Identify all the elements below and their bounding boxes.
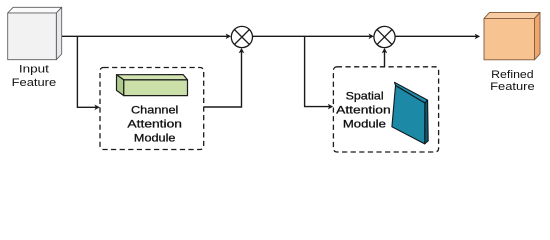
channel attention module dashed box [100, 68, 204, 150]
wire branch down to Channel Attention Module [77, 36, 96, 107]
input feature cube [8, 7, 62, 59]
svg-text:Attention: Attention [336, 105, 391, 117]
arrow into second multiply [369, 34, 374, 40]
arrow up into second multiply [382, 48, 388, 53]
wire spatial module output up into second multiply [384, 52, 386, 67]
wire main from input cube to first multiply [62, 35, 228, 37]
channel attention map green slab [117, 75, 188, 96]
svg-text:Feature: Feature [12, 77, 57, 89]
wire between multiplies [253, 35, 371, 37]
wire from second multiply to refined cube [395, 35, 477, 37]
spatial attention module dashed box [333, 67, 438, 152]
multiply circle 1 [231, 26, 252, 47]
label Spatial Attention Module [336, 91, 391, 131]
svg-text:Channel: Channel [131, 105, 178, 117]
svg-text:Spatial: Spatial [346, 91, 384, 103]
arrow up into first multiply [239, 48, 245, 53]
label Input Feature [12, 63, 57, 89]
spatial attention map teal slab [392, 82, 428, 144]
arrow into refined cube [475, 34, 480, 40]
arrow into Spatial Attention Module [328, 104, 333, 110]
svg-text:Attention: Attention [127, 119, 182, 131]
wire channel module output up into first multiply [204, 52, 242, 108]
svg-text:Module: Module [343, 119, 386, 131]
svg-text:Module: Module [134, 132, 176, 144]
arrow into Channel Attention Module [94, 105, 99, 111]
svg-text:Refined: Refined [491, 69, 534, 81]
label Refined Feature [490, 69, 535, 93]
wire branch down to Spatial Attention Module [305, 36, 330, 106]
multiply circle 2 [374, 26, 395, 47]
refined feature cube [484, 12, 540, 59]
svg-text:Input: Input [19, 63, 49, 75]
svg-text:Feature: Feature [490, 81, 535, 93]
arrow into first multiply [226, 34, 231, 40]
label Channel Attention Module [127, 105, 182, 145]
